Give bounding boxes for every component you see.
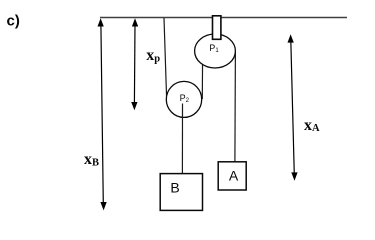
svg-text:B: B — [170, 180, 179, 196]
pulley P1 — [195, 34, 236, 68]
bracket for P1 — [213, 16, 221, 40]
svg-text:c): c) — [7, 13, 20, 30]
svg-text:A: A — [229, 167, 239, 183]
arrow xP — [131, 18, 138, 110]
block B — [160, 174, 202, 211]
wire rope P2 to P1 — [201, 55, 203, 99]
wire rope P1 to A — [234, 51, 237, 162]
arrow xA — [288, 34, 298, 181]
pulley P2 — [166, 81, 201, 117]
ceiling line — [100, 17, 347, 19]
arrow xB — [98, 18, 107, 210]
svg-text:xB: xB — [84, 151, 99, 169]
block A — [218, 162, 246, 190]
wire rope P2 to B — [181, 104, 183, 174]
svg-text:xA: xA — [304, 117, 320, 134]
svg-text:xp: xp — [146, 47, 160, 65]
wire rope ceiling to P2 — [164, 18, 167, 98]
